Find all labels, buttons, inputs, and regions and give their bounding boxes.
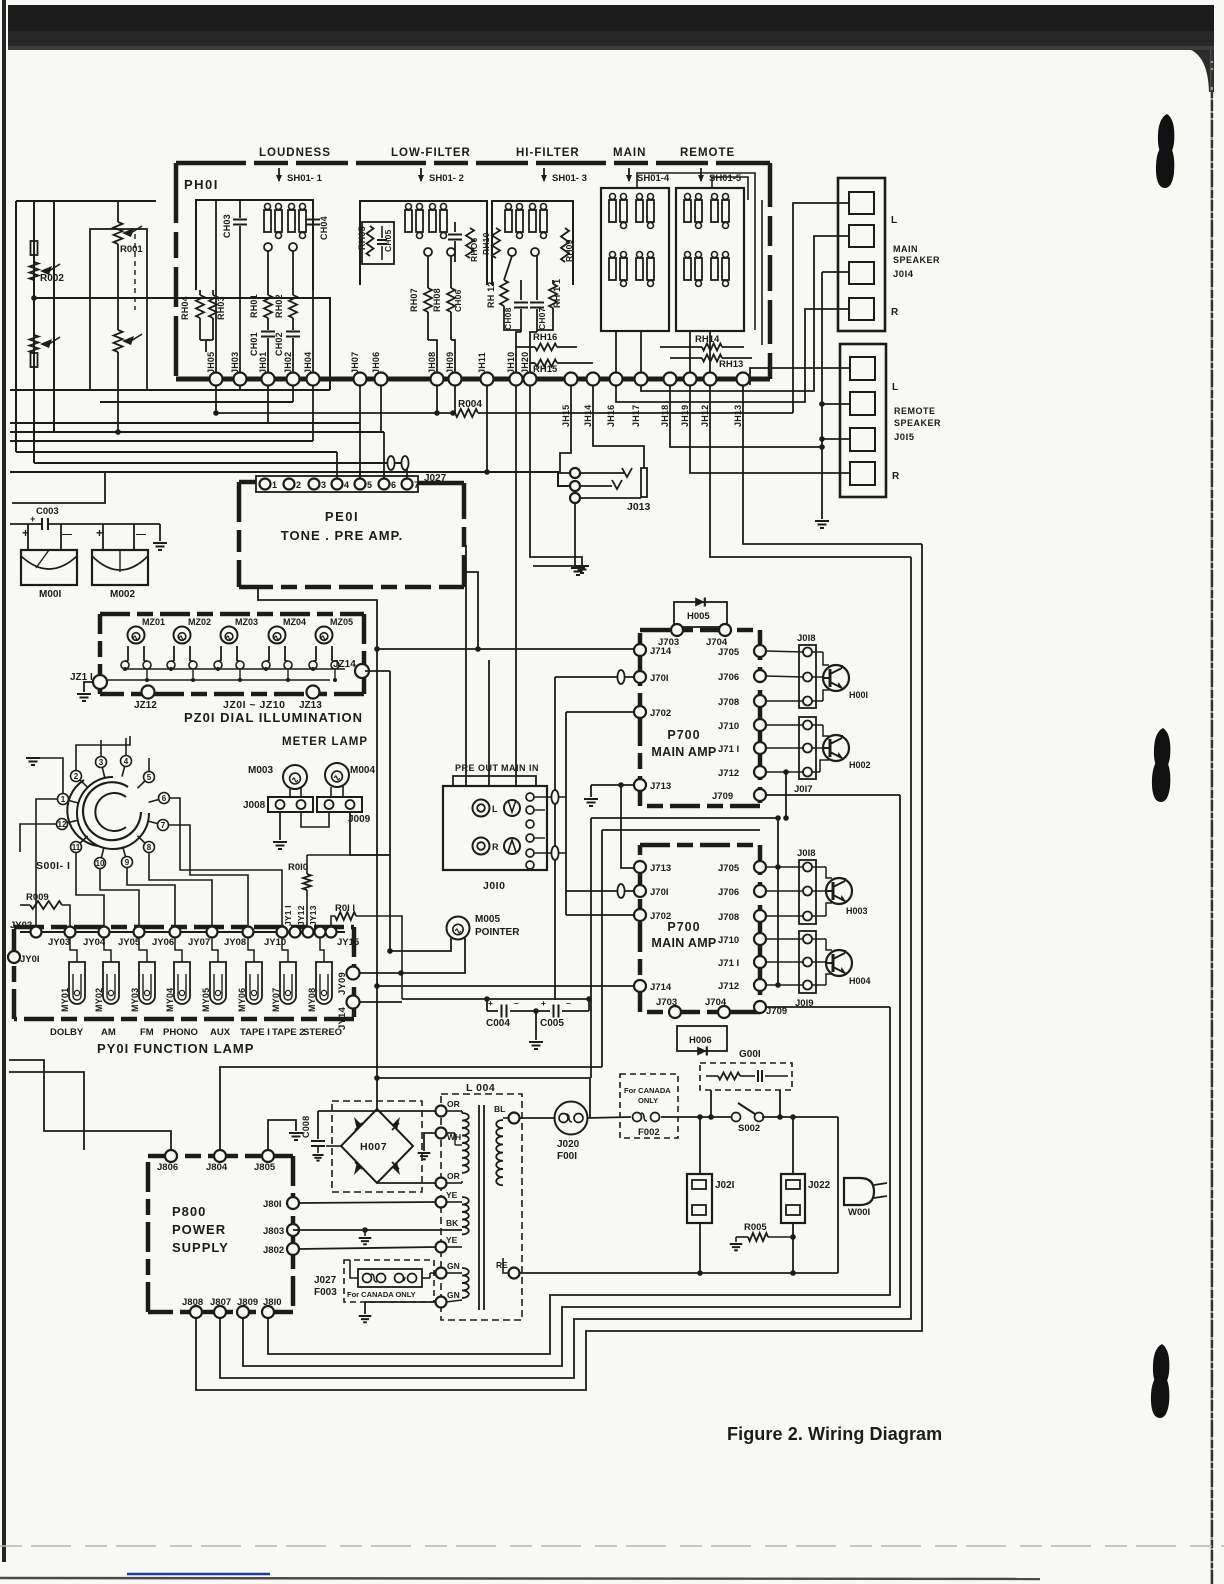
wire rotary 5 stub — [148, 758, 150, 771]
jack J705 upper — [754, 645, 766, 657]
svg-text:—: — — [136, 529, 146, 540]
svg-text:J706: J706 — [718, 672, 739, 683]
jack J010 R preout — [473, 838, 490, 855]
wire main speaker L feed — [793, 203, 849, 413]
wire lamp bus upper — [125, 668, 345, 670]
svg-text:GN: GN — [447, 1261, 460, 1271]
wire J802 to YE2 — [299, 1247, 436, 1249]
wire remote box top link — [712, 177, 748, 200]
terminal OR 2 — [436, 1178, 447, 1189]
outlet J021 — [687, 1174, 712, 1223]
wire rotary 7 to JY08 — [169, 825, 248, 926]
capacitor C008 — [317, 1111, 319, 1139]
wire J806 up-left — [9, 1060, 171, 1150]
resistor RH05 — [367, 226, 374, 256]
svg-text:TAPE I: TAPE I — [240, 1027, 270, 1038]
wire loudness to bus — [312, 290, 314, 379]
wire x591 vertical — [590, 818, 592, 1078]
svg-text:RHO6: RHO6 — [469, 238, 479, 262]
svg-text:RH08: RH08 — [432, 288, 442, 312]
svg-text:METER LAMP: METER LAMP — [282, 736, 368, 748]
meter M001 leads — [27, 524, 29, 550]
svg-text:J705: J705 — [718, 647, 740, 658]
ground at JH20 wire — [575, 565, 589, 567]
PE01 box — [239, 480, 256, 485]
potentiometer R002 lower — [30, 335, 39, 353]
svg-text:J710: J710 — [718, 935, 739, 946]
svg-text:R001: R001 — [120, 244, 143, 255]
wire rotary 4 up — [125, 738, 127, 755]
svg-text:P700: P700 — [667, 920, 700, 934]
jack J701 lower — [634, 885, 646, 897]
wire J801 to YE1 — [299, 1202, 436, 1203]
jack JH06 — [375, 373, 388, 386]
wire row y390 — [10, 389, 330, 391]
connector J015 terminal 2 — [850, 392, 875, 415]
ground R005 — [735, 1237, 737, 1242]
jack J703 lower — [669, 1006, 681, 1018]
For CANADA ONLY box F003 — [344, 1260, 434, 1302]
PHO1 box left border — [174, 163, 179, 378]
capacitor CH02 — [292, 318, 294, 330]
meter M002 — [92, 550, 148, 585]
svg-text:ONLY: ONLY — [638, 1096, 658, 1105]
svg-text:J009: J009 — [348, 814, 371, 825]
switch pin circle loudness B — [289, 243, 297, 251]
svg-text:JY06: JY06 — [152, 937, 174, 948]
svg-text:RH03: RH03 — [216, 296, 226, 320]
wire lamp feed — [70, 938, 77, 962]
rotary contact 6 — [159, 793, 170, 804]
svg-text:S00I- I: S00I- I — [36, 860, 70, 872]
jack J712 lower — [754, 979, 766, 991]
svg-text:JZ14: JZ14 — [333, 659, 356, 670]
wire DC row to fuse — [377, 1077, 590, 1079]
svg-text:MY04: MY04 — [165, 988, 175, 1012]
switch actuator SH01-5 — [700, 168, 702, 181]
svg-text:5: 5 — [367, 480, 372, 490]
jack JH08 — [431, 373, 444, 386]
svg-text:J705: J705 — [718, 863, 740, 874]
svg-text:C004: C004 — [486, 1018, 510, 1029]
terminal GN 1 — [436, 1268, 447, 1279]
wire run B J709-upper loop — [243, 795, 900, 1366]
svg-text:C003: C003 — [36, 506, 59, 517]
svg-text:H006: H006 — [689, 1035, 712, 1046]
wire R002 tap row — [34, 298, 330, 390]
wire remote to bus B — [709, 331, 711, 379]
svg-text:HI-FILTER: HI-FILTER — [516, 147, 580, 159]
jack JH13 — [737, 373, 750, 386]
svg-text:JH15: JH15 — [561, 405, 571, 427]
lamp MY07 — [280, 962, 296, 1004]
jack JH14 — [587, 373, 600, 386]
svg-text:MY03: MY03 — [130, 988, 140, 1012]
wire JH18 to common — [670, 385, 822, 447]
svg-text:MAIN IN: MAIN IN — [501, 763, 539, 773]
jack JY04 — [99, 927, 110, 938]
svg-text:DOLBY: DOLBY — [50, 1027, 84, 1038]
dashed wiper wire R001 — [134, 234, 136, 310]
wire J714 lower row — [377, 985, 634, 987]
wire row y432 — [10, 431, 384, 433]
jack J706 upper — [754, 670, 766, 682]
switch S remote 2 — [711, 200, 718, 222]
jack J711 lower — [754, 956, 766, 968]
svg-text:J806: J806 — [157, 1162, 178, 1173]
lamp MY01 — [69, 962, 85, 1004]
svg-text:CH04: CH04 — [319, 216, 329, 240]
wire plug vertical — [837, 1117, 839, 1273]
svg-text:R0I I: R0I I — [335, 903, 355, 914]
svg-text:J704: J704 — [705, 997, 727, 1008]
svg-text:OR: OR — [447, 1099, 460, 1109]
wire JH19 to remote speaker R — [690, 385, 850, 473]
svg-text:PZ0I DIAL ILLUMINATION: PZ0I DIAL ILLUMINATION — [184, 710, 363, 725]
PY01 box — [14, 925, 354, 930]
svg-text:MZ03: MZ03 — [235, 617, 258, 627]
jack JH07 — [354, 373, 367, 386]
wire speaker common vertical — [821, 272, 823, 519]
wire JH01 down — [267, 385, 269, 423]
wire J701 upper in — [555, 676, 634, 678]
svg-text:R009: R009 — [26, 892, 49, 903]
wire JH03 down — [239, 385, 241, 390]
svg-text:RH15: RH15 — [533, 364, 558, 375]
svg-text:BK: BK — [446, 1218, 459, 1228]
wire loudness section frame — [196, 200, 313, 290]
svg-text:J710: J710 — [718, 721, 739, 732]
jack J706 lower — [754, 885, 766, 897]
svg-text:8: 8 — [147, 843, 152, 852]
svg-text:10: 10 — [96, 859, 105, 868]
wire run C JH12 loop — [220, 557, 911, 1378]
connector J027 pin 5 — [355, 479, 366, 490]
connector J014 terminal 1 — [849, 192, 874, 214]
lamp MY03 — [139, 962, 155, 1004]
svg-text:RH14: RH14 — [695, 334, 720, 345]
wire third vertical — [53, 201, 55, 432]
terminal BL — [503, 1117, 509, 1119]
svg-text:J0I7: J0I7 — [794, 784, 813, 795]
svg-text:J703: J703 — [656, 997, 677, 1008]
outlet J022 — [781, 1174, 805, 1223]
jack J704 upper — [719, 624, 731, 636]
svg-text:PH0I: PH0I — [184, 177, 219, 192]
svg-text:J020: J020 — [557, 1139, 580, 1150]
inner box around R001 — [90, 229, 147, 390]
wire J010 contact rows — [534, 796, 566, 798]
svg-text:JY09: JY09 — [337, 972, 348, 995]
svg-text:PHONO: PHONO — [163, 1027, 198, 1038]
svg-text:J71 I: J71 I — [718, 958, 739, 969]
svg-text:RH01: RH01 — [249, 294, 259, 318]
wire J804 up — [220, 1067, 602, 1150]
svg-text:SUPPLY: SUPPLY — [172, 1240, 229, 1255]
capacitor CH05 — [381, 226, 383, 238]
svg-text:R004: R004 — [458, 399, 482, 410]
svg-text:2: 2 — [74, 772, 79, 781]
svg-text:SH01- 3: SH01- 3 — [552, 173, 587, 184]
wire J713 upper in — [591, 784, 634, 786]
rotary contact 12 — [57, 819, 68, 830]
connector J014 main speaker box — [838, 178, 885, 331]
wire J711u to strip — [766, 747, 803, 749]
wire J711l to strip — [766, 961, 803, 963]
svg-text:JY08: JY08 — [224, 937, 246, 948]
jack JH17 — [635, 373, 648, 386]
wire row y452 — [16, 451, 337, 453]
svg-text:BL: BL — [494, 1104, 505, 1114]
jack J714 lower — [634, 980, 646, 992]
switch actuator SH01-2 — [420, 168, 422, 181]
lamp MY04 — [174, 962, 190, 1004]
jack JH19 — [684, 373, 697, 386]
svg-text:JZ12: JZ12 — [134, 700, 157, 711]
jack JH03 — [234, 373, 247, 386]
capacitor C003 — [41, 518, 43, 530]
rotary contact 4 — [121, 756, 132, 767]
terminal YE 1 — [436, 1197, 447, 1208]
PHO1 box right border — [768, 163, 773, 379]
svg-text:RH04: RH04 — [180, 296, 190, 320]
svg-text:J70I: J70I — [650, 673, 669, 684]
wire x566 vertical — [565, 712, 567, 915]
svg-text:M002: M002 — [110, 589, 135, 600]
plug W001 — [844, 1178, 874, 1205]
svg-text:J80I: J80I — [263, 1199, 282, 1210]
transistor H004 — [826, 950, 852, 976]
jack J807 — [214, 1306, 226, 1318]
svg-text:6: 6 — [391, 480, 396, 490]
wire rotary 11 to JY04 — [76, 853, 104, 926]
binder ink blob 2 — [1154, 728, 1170, 770]
lamp MY06 — [246, 962, 262, 1004]
svg-text:J0I8: J0I8 — [797, 633, 816, 644]
svg-text:6: 6 — [162, 794, 167, 803]
resistor RH03 — [212, 290, 214, 295]
jack JY12 — [303, 927, 314, 938]
jack J710 lower — [754, 933, 766, 945]
fuse F002 — [633, 1113, 642, 1122]
rotary contact 7 — [158, 820, 169, 831]
jack JH05 — [210, 373, 223, 386]
svg-text:JH07: JH07 — [350, 352, 360, 374]
connector J027 pin 2 — [284, 479, 295, 490]
svg-text:SPEAKER: SPEAKER — [893, 255, 940, 265]
jack JY01 — [8, 951, 20, 963]
svg-text:J027: J027 — [314, 1275, 337, 1286]
wire left outer vertical — [15, 201, 17, 452]
svg-text:AM: AM — [101, 1027, 116, 1038]
svg-text:REMOTE: REMOTE — [680, 147, 735, 159]
wire JH11 down — [486, 385, 488, 472]
ground meter row — [159, 524, 161, 541]
P800 box — [148, 1154, 293, 1159]
svg-text:JY0I: JY0I — [20, 954, 40, 965]
rotary contact 5 — [144, 772, 155, 783]
svg-text:R002: R002 — [40, 273, 64, 284]
svg-text:M00I: M00I — [39, 589, 61, 600]
resistor RH02 — [292, 251, 294, 295]
svg-text:+: + — [488, 998, 493, 1008]
terminal WH — [436, 1128, 447, 1139]
resistor RH16 — [516, 346, 535, 348]
rotary contact 3 — [96, 757, 107, 768]
svg-text:MZ04: MZ04 — [283, 617, 306, 627]
svg-text:J0I5: J0I5 — [894, 432, 915, 443]
connector J027 pin 4 — [332, 479, 343, 490]
left page border line — [2, 0, 6, 1562]
svg-text:JY15: JY15 — [337, 937, 360, 948]
P700 lower box — [640, 843, 760, 848]
jack J701 upper — [634, 671, 646, 683]
wire J708l to strip — [766, 915, 803, 917]
jack JH09 — [449, 373, 462, 386]
svg-text:POINTER: POINTER — [475, 927, 520, 938]
lamp MY02 — [103, 962, 119, 1004]
wire lamp feed — [212, 938, 218, 962]
wire J702 upper in — [566, 711, 634, 713]
capacitor CH07 — [536, 256, 538, 300]
resistor R005 — [736, 1236, 748, 1238]
meter M001 — [21, 550, 77, 585]
svg-text:Figure 2. Wiring Diagram: Figure 2. Wiring Diagram — [727, 1424, 942, 1444]
jack J708 upper — [754, 695, 766, 707]
resistor RH04 — [199, 290, 201, 295]
svg-text:12: 12 — [58, 820, 67, 829]
svg-text:+: + — [30, 514, 35, 524]
wire J708u to strip — [766, 700, 803, 702]
resistor R004 — [436, 385, 438, 413]
jack J804 — [214, 1150, 226, 1162]
wire J714 upper row — [377, 648, 639, 650]
capacitor CH06 top — [454, 222, 456, 232]
svg-text:RH07: RH07 — [409, 288, 419, 312]
svg-text:J02I: J02I — [715, 1180, 735, 1191]
svg-text:RH10: RH10 — [481, 232, 491, 255]
wire J705-J712 link vertical — [777, 818, 779, 985]
svg-text:–: – — [514, 998, 519, 1008]
jack JH15 — [565, 373, 578, 386]
wire RE return bus — [519, 1272, 838, 1274]
wire lamp feed — [104, 938, 111, 962]
terminal GN 2 — [436, 1297, 447, 1308]
svg-text:POWER: POWER — [172, 1222, 226, 1237]
svg-text:9: 9 — [125, 858, 130, 867]
svg-text:1: 1 — [61, 795, 66, 804]
jack JH16 — [610, 373, 623, 386]
svg-text:JH10: JH10 — [506, 352, 516, 374]
jack JY03 — [65, 927, 76, 938]
bottom faint scan line — [0, 1545, 1224, 1547]
svg-text:JY04: JY04 — [83, 937, 106, 948]
wire JH12 long run right — [710, 385, 911, 557]
connector J015 terminal 4 — [850, 462, 875, 485]
svg-text:+: + — [96, 526, 103, 540]
wire JH07 down join row — [359, 385, 361, 423]
jack JH18 — [664, 373, 677, 386]
connector J015 terminal 1 — [850, 357, 875, 380]
jack JZ13 — [307, 686, 320, 699]
node R001 bottom — [115, 429, 121, 435]
transistor H003 — [826, 878, 852, 904]
resistor RH07 — [427, 256, 429, 288]
transistor H002 — [823, 735, 849, 761]
rotary contact 8 — [144, 842, 155, 853]
jack J704 lower — [718, 1006, 730, 1018]
jack J805 — [262, 1150, 274, 1162]
jack JH04 — [307, 373, 320, 386]
primary coil upper — [462, 1113, 469, 1173]
svg-text:—: — — [62, 529, 72, 540]
wire J027 pin6 up — [383, 432, 385, 478]
svg-text:JH03: JH03 — [230, 352, 240, 374]
jack J702 lower — [634, 909, 646, 921]
svg-text:L: L — [891, 215, 898, 226]
wire J009 feed — [350, 812, 390, 855]
connector J009 — [317, 797, 362, 812]
wire PE01 to PZ01 area — [258, 587, 377, 1109]
jack J808 — [190, 1306, 202, 1318]
For CANADA ONLY box F002 — [620, 1074, 678, 1138]
ground J713 upper — [584, 798, 598, 800]
P700 upper box — [640, 628, 760, 633]
wire J709l to right column — [766, 1006, 890, 1008]
switch S main 2 — [636, 200, 643, 222]
connector J015 remote speaker box — [840, 344, 886, 497]
wire J706u to strip — [766, 676, 803, 677]
switch actuator SH01-4 — [628, 168, 630, 181]
svg-text:JH13: JH13 — [733, 405, 743, 427]
svg-text:R: R — [492, 842, 499, 852]
connector J027 pin 3 — [309, 479, 320, 490]
svg-text:JH02: JH02 — [283, 352, 293, 374]
wire J709u to right column — [766, 794, 900, 796]
svg-text:J807: J807 — [210, 1297, 231, 1308]
svg-text:H007: H007 — [360, 1141, 387, 1153]
jack JH10 — [510, 373, 523, 386]
jack JH02 — [287, 373, 300, 386]
svg-text:CH03: CH03 — [222, 214, 232, 238]
svg-text:RH 1 1: RH 1 1 — [552, 279, 562, 308]
fuse F003 — [363, 1274, 372, 1283]
resistor-capacitor G001 — [706, 1075, 718, 1077]
capacitor CH04 — [312, 200, 314, 218]
secondary coil — [496, 1120, 503, 1185]
resistor R011 — [331, 916, 335, 926]
connector J027 pin 7 — [402, 479, 413, 490]
jack JY11 — [290, 927, 301, 938]
switch pin circle hifilter A — [508, 248, 516, 256]
svg-text:FM: FM — [140, 1027, 154, 1038]
jack J802 — [287, 1243, 299, 1255]
wire F003 left feed — [350, 1260, 358, 1278]
terminal RE — [503, 1258, 509, 1273]
capacitor CH03 — [239, 200, 241, 218]
svg-text:PRE OUT: PRE OUT — [455, 763, 499, 773]
wire M003 leads — [289, 789, 291, 797]
lamp MY05 — [210, 962, 226, 1004]
svg-text:RH02: RH02 — [274, 294, 284, 318]
svg-text:R005: R005 — [744, 1222, 767, 1233]
switch S loudness A — [264, 210, 271, 232]
svg-text:G00I: G00I — [739, 1049, 761, 1060]
wire lamp feed — [139, 938, 147, 962]
svg-text:CH06: CH06 — [453, 289, 463, 312]
svg-text:J709: J709 — [712, 791, 733, 802]
wire lamp feed — [175, 938, 182, 962]
